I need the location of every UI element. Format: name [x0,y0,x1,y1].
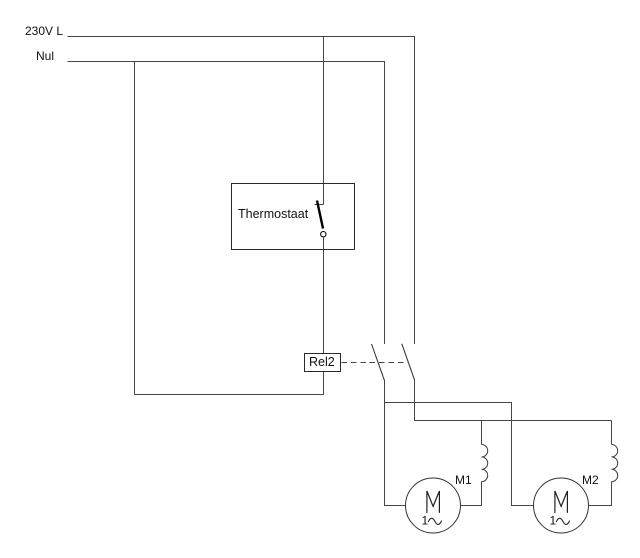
svg-text:230V L: 230V L [25,24,63,38]
svg-text:Nul: Nul [36,49,54,63]
svg-text:Rel2: Rel2 [309,355,335,369]
svg-text:1: 1 [550,514,557,528]
svg-text:Thermostaat: Thermostaat [238,207,309,221]
svg-text:M2: M2 [582,473,599,487]
svg-text:1: 1 [422,514,429,528]
svg-text:M1: M1 [455,473,472,487]
